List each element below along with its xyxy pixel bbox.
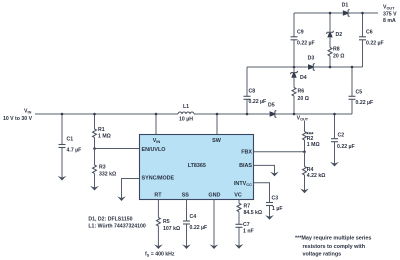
- resistor R6: [292, 78, 309, 114]
- resistor R2: [303, 121, 320, 152]
- svg-text:SYNC/MODE: SYNC/MODE: [142, 176, 175, 182]
- svg-text:C4: C4: [190, 214, 197, 220]
- ground (SYNC/MODE): [117, 196, 126, 201]
- svg-text:EN/UVLO: EN/UVLO: [142, 147, 166, 153]
- wire: INTVCC to C3: [254, 183, 270, 203]
- svg-text:L1: Würth 74437324100: L1: Würth 74437324100: [88, 223, 145, 229]
- svg-text:C2: C2: [338, 133, 345, 139]
- svg-text:voltage ratings: voltage ratings: [303, 252, 342, 258]
- ground (C1): [58, 176, 67, 181]
- svg-text:332 kΩ: 332 kΩ: [99, 172, 116, 178]
- svg-text:R2: R2: [307, 136, 314, 142]
- node: junction VIN pin/rail: [155, 113, 158, 116]
- ground (C3): [265, 215, 274, 220]
- svg-text:L1: L1: [183, 104, 189, 110]
- ground (R3): [90, 186, 99, 191]
- wire: rail2 left segment: [247, 66, 308, 68]
- wire: D5 cathode to VOUT1 rail: [275, 113, 352, 115]
- svg-text:LT8365: LT8365: [188, 163, 206, 169]
- capacitor C2: [331, 114, 355, 164]
- svg-text:1 µF: 1 µF: [272, 206, 282, 212]
- svg-text:D1: D1: [342, 3, 349, 9]
- svg-text:8 mA: 8 mA: [383, 18, 396, 24]
- svg-text:4.22 kΩ: 4.22 kΩ: [307, 173, 326, 179]
- ground (C2): [330, 162, 339, 167]
- node: junction R2/R4/FBX: [303, 151, 306, 154]
- svg-text:D5: D5: [268, 103, 275, 109]
- capacitor C7: [236, 222, 254, 247]
- svg-text:BIAS: BIAS: [239, 163, 252, 169]
- wire: top rail left: [294, 12, 343, 14]
- node: junction R1/rail: [93, 113, 96, 116]
- svg-text:10 V to 30 V: 10 V to 30 V: [3, 116, 33, 122]
- ground (R5): [154, 244, 163, 249]
- svg-text:D4: D4: [300, 75, 307, 81]
- svg-text:VOUT: VOUT: [297, 116, 309, 122]
- svg-text:C5: C5: [356, 90, 363, 96]
- svg-text:0.22 µF: 0.22 µF: [249, 99, 267, 105]
- wire: VIN pin stub: [155, 114, 157, 135]
- svg-text:R3: R3: [99, 165, 106, 171]
- wire: VIN rail to L1: [35, 113, 178, 115]
- wire: BIAS to ground: [254, 165, 275, 174]
- svg-text:1 nF: 1 nF: [243, 228, 254, 234]
- svg-text:0.22 µF: 0.22 µF: [190, 225, 208, 231]
- svg-text:R8: R8: [333, 47, 340, 53]
- node: junction D4/C9/rail2: [293, 66, 296, 69]
- resistor R5 (RT pin): [156, 200, 180, 247]
- resistor R1: [93, 114, 111, 149]
- node VIN input label: [3, 109, 33, 122]
- svg-text:10 µH: 10 µH: [179, 116, 193, 122]
- capacitor C9: [291, 13, 315, 67]
- svg-text:RT: RT: [154, 192, 162, 198]
- svg-text:SW: SW: [212, 138, 222, 144]
- resistor R3: [93, 149, 117, 189]
- svg-text:FBX: FBX: [241, 150, 252, 156]
- node VOUT output label: [383, 4, 397, 24]
- op-amp block LT8365: [140, 135, 254, 200]
- svg-text:R7: R7: [244, 204, 251, 210]
- node: junction C8/SW rail: [246, 113, 249, 116]
- svg-text:C6: C6: [366, 30, 373, 36]
- ground (R4): [300, 189, 309, 194]
- svg-text:84.5 kΩ: 84.5 kΩ: [244, 210, 263, 216]
- wire: SYNC/MODE to ground: [122, 179, 140, 199]
- svg-text:C7: C7: [243, 222, 250, 228]
- resistor R7 (VC pin): [237, 200, 262, 225]
- note: component list: [88, 217, 145, 230]
- node VOUT net label (feedback): [297, 116, 314, 139]
- capacitor C5: [349, 67, 374, 114]
- node: junction C1/rail: [61, 113, 64, 116]
- diode D4: [290, 67, 307, 81]
- capacitor C1: [59, 114, 82, 178]
- svg-text:C9: C9: [297, 30, 304, 36]
- node: junction C2/rail: [333, 113, 336, 116]
- node: junction C6/top rail: [361, 12, 364, 15]
- svg-text:VC: VC: [234, 192, 242, 198]
- wire: EN/UVLO pin to divider: [95, 148, 140, 150]
- svg-text:20 Ω: 20 Ω: [298, 96, 309, 102]
- svg-text:0.22 µF: 0.22 µF: [366, 41, 384, 47]
- svg-text:R1: R1: [98, 127, 105, 133]
- capacitor C6: [359, 13, 384, 67]
- node: junction R6/rail: [293, 113, 296, 116]
- svg-text:INTVCC: INTVCC: [234, 181, 252, 187]
- wire: GND pin to ground: [213, 200, 215, 247]
- node: junction C5/rail2: [351, 66, 354, 69]
- svg-text:1 MΩ: 1 MΩ: [307, 142, 320, 148]
- note: series resistor note: [295, 236, 371, 258]
- capacitor C8: [244, 67, 267, 114]
- svg-text:0.22 µF: 0.22 µF: [356, 100, 374, 106]
- svg-text:fS = 400 kHz: fS = 400 kHz: [145, 251, 175, 257]
- svg-text:D2: D2: [336, 32, 343, 38]
- svg-text:C8: C8: [249, 88, 256, 94]
- diode D1: [342, 3, 349, 18]
- diode D5: [268, 103, 276, 119]
- node: junction R8/rail2: [329, 66, 332, 69]
- svg-text:SS: SS: [182, 192, 190, 198]
- wire: FBX pin to divider: [254, 151, 305, 153]
- svg-text:0.22 µF: 0.22 µF: [337, 144, 355, 150]
- svg-text:4.7 µF: 4.7 µF: [67, 148, 82, 154]
- node: junction D2/top rail: [329, 12, 332, 15]
- wire: rail2 right segment: [314, 66, 363, 68]
- resistor R8: [328, 37, 344, 67]
- svg-text:R5: R5: [163, 219, 170, 225]
- svg-text:VIN: VIN: [153, 138, 161, 144]
- svg-text:VIN: VIN: [24, 109, 32, 115]
- svg-text:C3: C3: [272, 195, 279, 201]
- wire: L1 to D5 anode: [194, 113, 269, 115]
- ground (GND pin): [210, 244, 219, 249]
- ground (C4): [182, 244, 191, 249]
- svg-text:1 MΩ: 1 MΩ: [98, 134, 111, 140]
- svg-text:375 V: 375 V: [383, 12, 397, 18]
- node: junction SW pin/rail: [216, 113, 219, 116]
- wire: D1 cathode to VOUT terminal: [349, 12, 378, 14]
- resistor R4: [303, 152, 326, 191]
- svg-text:D1, D2: DFLS1150: D1, D2: DFLS1150: [88, 217, 132, 223]
- ground (BIAS): [270, 172, 279, 177]
- capacitor C3: [266, 195, 282, 217]
- capacitor C4 (SS pin): [183, 200, 207, 247]
- wire: SW pin stub: [216, 114, 218, 135]
- svg-text:R6: R6: [298, 89, 305, 95]
- svg-text:VOUT: VOUT: [383, 4, 395, 10]
- svg-text:107 kΩ: 107 kΩ: [163, 226, 180, 232]
- svg-text:D3: D3: [308, 56, 315, 62]
- svg-text:GND: GND: [208, 192, 220, 198]
- svg-text:0.22 µF: 0.22 µF: [297, 41, 315, 47]
- ground (C7): [235, 244, 244, 249]
- diode D2: [326, 13, 342, 38]
- svg-text:***May require multiple series: ***May require multiple series: [295, 236, 371, 242]
- inductor L1: [178, 104, 194, 122]
- svg-text:resistors to comply with: resistors to comply with: [303, 244, 366, 250]
- diode D3: [308, 56, 315, 72]
- node: junction R1/R3/EN: [93, 147, 96, 150]
- svg-text:C1: C1: [67, 137, 74, 143]
- svg-text:20 Ω: 20 Ω: [333, 54, 344, 60]
